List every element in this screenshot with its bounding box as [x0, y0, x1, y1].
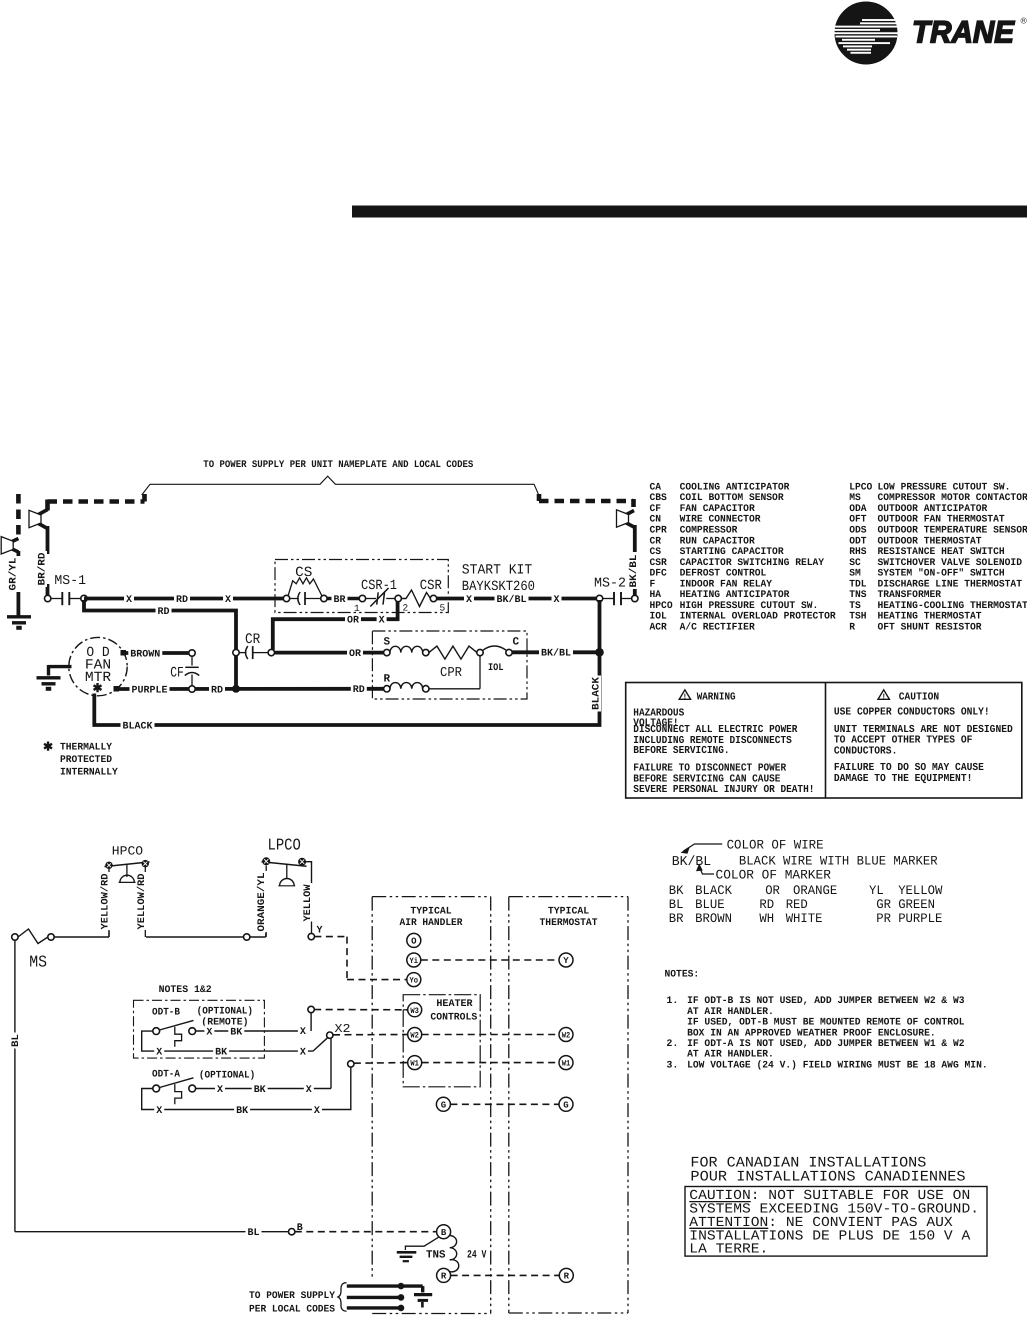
- power supply line 3: [347, 1306, 401, 1309]
- label X: [304, 1083, 314, 1095]
- outdoor thermostat ODT-B enclosure: [134, 1000, 265, 1058]
- svg-text:SEVERE PERSONAL INJURY OR DEAT: SEVERE PERSONAL INJURY OR DEATH!: [633, 784, 814, 796]
- label X: [223, 593, 233, 605]
- svg-text:CPR: CPR: [650, 525, 667, 536]
- svg-text:NOTES 1&2: NOTES 1&2: [159, 985, 212, 996]
- terminal W1: [403, 1062, 408, 1064]
- label BL vertical: [10, 1033, 21, 1049]
- svg-text:CR: CR: [245, 632, 261, 648]
- svg-text:BAYKSKT260: BAYKSKT260: [462, 579, 535, 595]
- svg-text:WH: WH: [759, 911, 774, 926]
- wire HPCO left leg YELLOW/RD: [108, 869, 110, 873]
- svg-text:CONTROLS: CONTROLS: [430, 1013, 477, 1024]
- typical thermostat enclosure: [509, 896, 628, 898]
- svg-text:RUN CAPACITOR: RUN CAPACITOR: [680, 536, 755, 547]
- svg-text:HEATING-COOLING THERMOSTAT: HEATING-COOLING THERMOSTAT: [878, 601, 1027, 612]
- svg-text:INTERNAL OVERLOAD PROTECTOR: INTERNAL OVERLOAD PROTECTOR: [680, 612, 836, 623]
- svg-text:C: C: [513, 637, 520, 649]
- terminal B air handler: [437, 1225, 451, 1239]
- label X: [154, 1104, 164, 1116]
- svg-text:5: 5: [440, 603, 446, 614]
- wire LPCO left leg ORANGE/YL: [265, 866, 267, 872]
- capacitor CF: [169, 665, 186, 679]
- svg-text:ODA: ODA: [849, 504, 866, 515]
- svg-text:RED: RED: [786, 897, 808, 912]
- svg-text:HIGH PRESSURE CUTOUT SW.: HIGH PRESSURE CUTOUT SW.: [680, 601, 819, 612]
- label X: [298, 1025, 308, 1037]
- wire BL bottom run: [15, 1231, 289, 1233]
- svg-text:2.: 2.: [666, 1039, 678, 1050]
- Trane logo globe: [832, 0, 901, 68]
- svg-text:OUTDOOR FAN THERMOSTAT: OUTDOOR FAN THERMOSTAT: [878, 515, 1005, 526]
- svg-text:BLACK: BLACK: [592, 677, 603, 710]
- compressor start winding: [384, 649, 390, 655]
- svg-text:INDOOR FAN RELAY: INDOOR FAN RELAY: [680, 579, 772, 590]
- wire ODT-A upper X BK X: [196, 1088, 331, 1090]
- svg-text:STARTING CAPACITOR: STARTING CAPACITOR: [680, 547, 784, 558]
- svg-text:USE COPPER CONDUCTORS ONLY!: USE COPPER CONDUCTORS ONLY!: [834, 707, 990, 719]
- svg-text:BK/BL: BK/BL: [541, 648, 571, 660]
- svg-text:X: X: [553, 595, 559, 606]
- svg-text:COMPRESSOR: COMPRESSOR: [680, 525, 738, 536]
- svg-text:Yo: Yo: [410, 977, 419, 986]
- svg-text:LOW VOLTAGE (24 V.) FIELD WIRI: LOW VOLTAGE (24 V.) FIELD WIRING MUST BE…: [687, 1059, 988, 1071]
- svg-text:HEATING ANTICIPATOR: HEATING ANTICIPATOR: [680, 590, 790, 601]
- terminal Yo: [407, 973, 421, 987]
- svg-text:A/C RECTIFIER: A/C RECTIFIER: [680, 621, 755, 633]
- wire BR: CS to CSR-1: [327, 597, 359, 601]
- svg-text:BEFORE SERVICING.: BEFORE SERVICING.: [633, 745, 729, 757]
- bracket under power-supply note: [142, 476, 539, 495]
- svg-text:BOX IN AN APPROVED WEATHER PRO: BOX IN AN APPROVED WEATHER PROOF ENCLOSU…: [687, 1028, 936, 1039]
- svg-text:24 V: 24 V: [467, 1250, 487, 1262]
- svg-text:ODT-B: ODT-B: [152, 1008, 180, 1019]
- svg-text:CAUTION: CAUTION: [899, 692, 939, 704]
- terminal X2: [327, 1032, 333, 1038]
- svg-text:OUTDOOR ANTICIPATOR: OUTDOOR ANTICIPATOR: [878, 504, 988, 515]
- svg-text:CF: CF: [170, 666, 184, 682]
- svg-text:LA TERRE.: LA TERRE.: [689, 1243, 768, 1258]
- terminal W2 thermostat: [559, 1028, 573, 1042]
- svg-text:Y: Y: [563, 956, 569, 966]
- label RD: [351, 683, 367, 695]
- svg-text:BK/BL: BK/BL: [497, 594, 527, 606]
- svg-text:®: ®: [1021, 16, 1027, 26]
- ground symbol power supply: [414, 1293, 432, 1296]
- svg-text:DFC: DFC: [650, 569, 667, 580]
- transformer TNS coil: [450, 1235, 459, 1271]
- svg-text:W3: W3: [410, 1007, 419, 1016]
- terminal G: [436, 1097, 450, 1111]
- label BL: [246, 1226, 262, 1238]
- thermostat switch ODT-A: [153, 1085, 160, 1092]
- wire B dashed to transformer: [295, 1231, 437, 1233]
- svg-text:START KIT: START KIT: [462, 563, 532, 579]
- svg-text:COLOR OF WIRE: COLOR OF WIRE: [727, 838, 824, 853]
- svg-text:BK: BK: [254, 1085, 266, 1096]
- svg-text:PURPLE: PURPLE: [132, 685, 168, 696]
- svg-text:RD: RD: [176, 595, 188, 606]
- dashed field power wire GR/YL: [16, 494, 21, 536]
- svg-text:Yi: Yi: [410, 957, 419, 966]
- svg-text:X: X: [126, 595, 132, 606]
- svg-text:AT AIR HANDLER.: AT AIR HANDLER.: [687, 1007, 774, 1018]
- resistor CSR: [418, 578, 443, 592]
- label GR/YL: [7, 556, 18, 592]
- label X: [215, 1083, 225, 1095]
- svg-text:TYPICAL: TYPICAL: [548, 907, 589, 918]
- svg-text:2: 2: [403, 603, 409, 614]
- start kit enclosure box (dash-dot): [275, 560, 448, 613]
- wire PURPLE/RD: motor to CPR R: [117, 687, 384, 691]
- svg-text:Y: Y: [317, 926, 323, 937]
- svg-text:W2: W2: [410, 1031, 419, 1040]
- svg-text:W1: W1: [562, 1060, 571, 1069]
- svg-text:X2: X2: [335, 1022, 351, 1036]
- svg-text:IF USED, ODT-B MUST BE MOUNTED: IF USED, ODT-B MUST BE MOUNTED REMOTE OF…: [687, 1018, 964, 1029]
- svg-text:YELLOW/RD: YELLOW/RD: [136, 874, 148, 930]
- svg-text:WARNING: WARNING: [697, 692, 736, 704]
- svg-text:BL: BL: [248, 1228, 260, 1239]
- svg-text:RD: RD: [353, 685, 365, 696]
- svg-text:IF ODT-A IS NOT USED, ADD JUMP: IF ODT-A IS NOT USED, ADD JUMPER BETWEEN…: [687, 1039, 964, 1050]
- svg-text:YL: YL: [869, 883, 884, 898]
- svg-text:YELLOW: YELLOW: [303, 885, 314, 922]
- svg-text:CONDUCTORS.: CONDUCTORS.: [834, 745, 897, 757]
- warning text: [633, 707, 814, 796]
- svg-text:SYSTEM "ON-OFF" SWITCH: SYSTEM "ON-OFF" SWITCH: [878, 568, 1005, 580]
- svg-text:S: S: [384, 637, 391, 649]
- svg-text:RHS: RHS: [849, 547, 866, 558]
- svg-text:SM: SM: [849, 569, 861, 580]
- power supply line 2: [347, 1296, 401, 1299]
- svg-text:F: F: [650, 579, 656, 590]
- svg-text:X: X: [206, 1027, 212, 1038]
- label OR: [345, 614, 361, 626]
- label X: [154, 1046, 164, 1058]
- compressor run resistance: [429, 646, 477, 659]
- svg-text:TS: TS: [849, 601, 861, 612]
- svg-text:RD: RD: [759, 897, 774, 912]
- ground symbol GR/YL: [7, 615, 31, 618]
- junction BK/BL node on MS-2 leg: [595, 648, 604, 657]
- svg-text:COIL BOTTOM SENSOR: COIL BOTTOM SENSOR: [680, 493, 784, 504]
- svg-text:R: R: [849, 622, 855, 633]
- svg-text:OUTDOOR THERMOSTAT: OUTDOOR THERMOSTAT: [878, 536, 982, 547]
- svg-text:TO POWER SUPPLY PER UNIT NAMEP: TO POWER SUPPLY PER UNIT NAMEPLATE AND L…: [203, 460, 473, 471]
- svg-text:OFT SHUNT RESISTOR: OFT SHUNT RESISTOR: [878, 622, 982, 633]
- capacitor CR: [244, 631, 262, 645]
- ground symbol at motor: [49, 665, 72, 668]
- label BK/BL: [539, 647, 573, 659]
- terminal W3: [403, 1009, 408, 1011]
- label RD: [156, 605, 172, 617]
- svg-text:OR: OR: [765, 883, 780, 898]
- heater controls box: [403, 995, 480, 1087]
- svg-text:NOTES:: NOTES:: [665, 970, 700, 981]
- svg-text:HA: HA: [650, 590, 662, 601]
- canadian caution box: [685, 1187, 987, 1257]
- svg-text:AIR HANDLER: AIR HANDLER: [400, 918, 463, 929]
- label X: [204, 1025, 214, 1037]
- svg-text:X: X: [300, 1027, 306, 1038]
- svg-text:BR/RD: BR/RD: [37, 553, 49, 586]
- svg-text:BL: BL: [669, 897, 684, 912]
- overload IOL arc: [483, 646, 507, 651]
- svg-text:TNS: TNS: [849, 590, 866, 601]
- notes block: [665, 970, 988, 1072]
- compressor CPR enclosure (dash-dot): [372, 631, 527, 699]
- svg-text:OR: OR: [349, 649, 361, 660]
- dashed field power wire right: [537, 494, 542, 501]
- svg-text:TRANSFORMER: TRANSFORMER: [878, 590, 942, 601]
- svg-text:CS: CS: [650, 547, 662, 558]
- svg-text:CAPACITOR SWITCHING RELAY: CAPACITOR SWITCHING RELAY: [680, 558, 825, 569]
- wire connector CN right (BK/BL): [626, 511, 635, 516]
- dashed field power wire left: [142, 494, 147, 502]
- svg-text:SWITCHOVER VALVE SOLENOID: SWITCHOVER VALVE SOLENOID: [878, 558, 1023, 569]
- label X: [298, 1046, 308, 1058]
- svg-text:R: R: [384, 674, 391, 686]
- label X: [552, 593, 562, 605]
- svg-text:X: X: [300, 1048, 306, 1059]
- svg-text:R: R: [441, 1272, 447, 1282]
- thermostat switch ODT-B: [153, 1028, 160, 1035]
- terminal R air handler: [437, 1268, 451, 1282]
- terminal B node: [289, 1229, 295, 1235]
- svg-text:X: X: [156, 1106, 162, 1117]
- svg-text:OUTDOOR TEMPERATURE SENSOR: OUTDOOR TEMPERATURE SENSOR: [878, 525, 1027, 536]
- label BK: [213, 1046, 229, 1058]
- svg-text:DEFROST CONTROL: DEFROST CONTROL: [680, 569, 767, 580]
- label RD: [209, 683, 225, 695]
- wire GR/YL to ground: [16, 551, 20, 556]
- svg-text:CR: CR: [650, 536, 662, 547]
- svg-text:RD: RD: [211, 685, 223, 696]
- wire BK/BL vertical to MS-2: [633, 525, 637, 552]
- svg-text:COMPRESSOR MOTOR CONTACTOR: COMPRESSOR MOTOR CONTACTOR: [878, 493, 1027, 504]
- svg-text:INTERNALLY: INTERNALLY: [60, 768, 118, 779]
- transformer TNS primary ground: [405, 1237, 438, 1250]
- svg-text:TO POWER SUPPLY: TO POWER SUPPLY: [249, 1291, 335, 1302]
- svg-text:TRANE: TRANE: [912, 15, 1015, 50]
- svg-text:ODS: ODS: [849, 525, 866, 536]
- wire R dashed to thermostat: [451, 1274, 560, 1276]
- svg-text:SC: SC: [849, 558, 861, 569]
- svg-text:POUR INSTALLATIONS CANADIENNES: POUR INSTALLATIONS CANADIENNES: [690, 1170, 965, 1186]
- svg-text:CN: CN: [650, 515, 662, 526]
- label BLACK vertical: [590, 676, 601, 712]
- label X: [377, 614, 387, 626]
- svg-text:!: !: [881, 694, 886, 702]
- wire HPCO right leg YELLOW/RD: [144, 867, 146, 873]
- svg-text:YELLOW: YELLOW: [898, 883, 942, 898]
- terminal Y thermostat: [559, 953, 573, 967]
- svg-text:BL: BL: [11, 1034, 22, 1047]
- svg-text:(OPTIONAL): (OPTIONAL): [199, 1070, 255, 1082]
- svg-text:HPCO: HPCO: [650, 601, 673, 612]
- label BK: [228, 1025, 244, 1037]
- wire BK/BL: CPR C to MS-2 leg: [512, 650, 596, 654]
- wire ODT-B lower X BK X: [142, 1031, 313, 1051]
- svg-text:✱: ✱: [43, 741, 53, 755]
- svg-text:COOLING ANTICIPATOR: COOLING ANTICIPATOR: [680, 482, 790, 493]
- svg-text:G: G: [563, 1101, 568, 1111]
- header rule bar: [352, 206, 1027, 218]
- svg-text:MS-1: MS-1: [54, 574, 86, 589]
- wire LPCO right leg YELLOW: [306, 862, 312, 884]
- wire OR-X: CR to CSR-1 pin 2: [273, 601, 398, 650]
- svg-text:LOW PRESSURE CUTOUT SW.: LOW PRESSURE CUTOUT SW.: [878, 482, 1011, 493]
- label X: [464, 593, 474, 605]
- label X: [124, 593, 134, 605]
- svg-text:BLACK WIRE WITH BLUE MARKER: BLACK WIRE WITH BLUE MARKER: [739, 854, 938, 869]
- svg-text:ACR: ACR: [650, 622, 667, 633]
- svg-text:PROTECTED: PROTECTED: [60, 755, 112, 766]
- svg-text:ORANGE: ORANGE: [793, 883, 837, 898]
- terminal R thermostat: [559, 1268, 573, 1282]
- wire BR/RD vertical: [46, 526, 50, 554]
- wire Y dashed to Yo: [314, 936, 347, 938]
- svg-text:X: X: [217, 1085, 223, 1096]
- svg-text:THERMOSTAT: THERMOSTAT: [540, 918, 598, 929]
- label BK/BL: [495, 593, 529, 605]
- svg-text:BR: BR: [334, 595, 346, 606]
- wire OR: CR to compressor S: [274, 651, 383, 655]
- label X: [312, 1104, 322, 1116]
- switch blade to X2: [313, 1038, 328, 1051]
- svg-text:RESISTANCE HEAT SWITCH: RESISTANCE HEAT SWITCH: [878, 547, 1005, 558]
- terminal W2: [403, 1034, 408, 1036]
- svg-text:THERMALLY: THERMALLY: [60, 743, 112, 754]
- svg-text:MS: MS: [849, 493, 861, 504]
- label BK/BL vertical: [628, 553, 639, 589]
- svg-text:BLACK: BLACK: [695, 883, 732, 898]
- svg-text:LPCO: LPCO: [268, 836, 301, 855]
- svg-text:RD: RD: [158, 607, 170, 618]
- capacitor CS with bleed resistor: [294, 565, 314, 579]
- wire L1: MS-1 to CS: [84, 597, 284, 601]
- wire BLACK: motor to MS-2 leg: [94, 600, 599, 725]
- power supply line 1: [347, 1284, 423, 1287]
- svg-text:HEATER: HEATER: [436, 999, 472, 1010]
- svg-text:CS: CS: [295, 565, 312, 581]
- label PURPLE: [130, 683, 170, 695]
- svg-text:G: G: [441, 1101, 446, 1111]
- svg-text:TDL: TDL: [849, 579, 866, 590]
- svg-text:X: X: [225, 595, 231, 606]
- svg-text:1.: 1.: [666, 996, 678, 1007]
- label BK: [252, 1083, 268, 1095]
- wire L1: CSR to MS-2: [437, 597, 597, 601]
- svg-text:B: B: [441, 1228, 447, 1238]
- svg-text:BK/BL: BK/BL: [628, 555, 640, 588]
- node terminal: [244, 934, 250, 940]
- svg-text:OR: OR: [347, 616, 359, 627]
- wire dashed to W2: [333, 1034, 408, 1036]
- wire BROWN: motor to CF: [124, 651, 190, 655]
- svg-text:CSR: CSR: [420, 578, 443, 594]
- wire connector CN left (BR/RD): [39, 510, 48, 515]
- svg-text:MS-2: MS-2: [594, 577, 626, 592]
- svg-text:BLACK: BLACK: [123, 721, 153, 732]
- svg-text:LPCO: LPCO: [849, 482, 872, 493]
- wire BL vertical: [14, 940, 16, 1232]
- svg-text:(OPTIONAL): (OPTIONAL): [197, 1006, 253, 1018]
- terminal Yi: [407, 953, 421, 967]
- label BR: [332, 593, 348, 605]
- svg-text:YELLOW/RD: YELLOW/RD: [100, 874, 112, 930]
- svg-text:BK: BK: [236, 1106, 248, 1117]
- svg-text:MS: MS: [29, 953, 47, 972]
- label BROWN: [128, 647, 162, 659]
- svg-text:PER LOCAL CODES: PER LOCAL CODES: [249, 1305, 335, 1316]
- svg-text:O: O: [411, 937, 417, 947]
- color of wire legend: [669, 838, 943, 926]
- svg-text:PR: PR: [876, 911, 891, 926]
- label BR/RD: [36, 551, 47, 587]
- svg-text:CA: CA: [650, 482, 662, 493]
- svg-text:R: R: [564, 1272, 570, 1282]
- svg-text:CBS: CBS: [650, 493, 667, 504]
- svg-text:X: X: [314, 1106, 320, 1117]
- svg-text:HEATING THERMOSTAT: HEATING THERMOSTAT: [878, 612, 982, 623]
- warning and caution box: [626, 683, 1022, 799]
- svg-text:W1: W1: [410, 1060, 419, 1069]
- svg-text:GR: GR: [876, 897, 891, 912]
- svg-text:CSR-1: CSR-1: [361, 578, 397, 594]
- svg-text:ORANGE/YL: ORANGE/YL: [256, 873, 268, 932]
- wire Yi to Y dashed: [421, 959, 559, 961]
- junction RD node: [232, 685, 240, 693]
- svg-text:X: X: [306, 1085, 312, 1096]
- svg-text:BK: BK: [215, 1048, 227, 1059]
- svg-text:BK: BK: [669, 883, 684, 898]
- svg-text:BK: BK: [230, 1027, 242, 1038]
- terminal W1 thermostat: [559, 1056, 573, 1070]
- svg-text:BR: BR: [669, 911, 684, 926]
- svg-text:PURPLE: PURPLE: [898, 911, 942, 926]
- svg-text:BROWN: BROWN: [130, 649, 160, 660]
- caution triangle icon: [878, 690, 889, 700]
- svg-text:GREEN: GREEN: [898, 897, 935, 912]
- svg-text:ODT-A: ODT-A: [152, 1070, 180, 1081]
- wire G to thermostat dashed: [450, 1103, 559, 1105]
- svg-text:DAMAGE TO THE EQUIPMENT!: DAMAGE TO THE EQUIPMENT!: [834, 773, 972, 785]
- svg-text:DISCHARGE LINE THERMOSTAT: DISCHARGE LINE THERMOSTAT: [878, 579, 1023, 590]
- svg-text:BK/BL: BK/BL: [672, 855, 711, 870]
- typical air handler enclosure: [372, 896, 491, 898]
- label OR: [347, 647, 363, 659]
- svg-text:W2: W2: [562, 1031, 571, 1040]
- svg-text:COLOR OF MARKER: COLOR OF MARKER: [716, 867, 832, 882]
- svg-text:CSR: CSR: [650, 558, 667, 569]
- svg-text:X: X: [156, 1048, 162, 1059]
- wire ODT-A lower X BK X: [142, 1067, 351, 1110]
- legend of abbreviations: [650, 482, 1027, 633]
- svg-text:TNS: TNS: [426, 1250, 446, 1262]
- wire dashed to W3: [314, 1009, 408, 1011]
- svg-text:IF ODT-B IS NOT USED, ADD JUMP: IF ODT-B IS NOT USED, ADD JUMPER BETWEEN…: [687, 996, 964, 1007]
- terminal O: [407, 933, 421, 947]
- label BK: [234, 1104, 250, 1116]
- svg-text:BLUE: BLUE: [695, 897, 725, 912]
- svg-text:WIRE CONNECTOR: WIRE CONNECTOR: [680, 515, 761, 526]
- svg-text:TYPICAL: TYPICAL: [410, 907, 451, 918]
- svg-text:CPR: CPR: [440, 666, 462, 681]
- wire X2 down to ODT-A: [330, 1038, 332, 1088]
- svg-text:X: X: [379, 616, 385, 627]
